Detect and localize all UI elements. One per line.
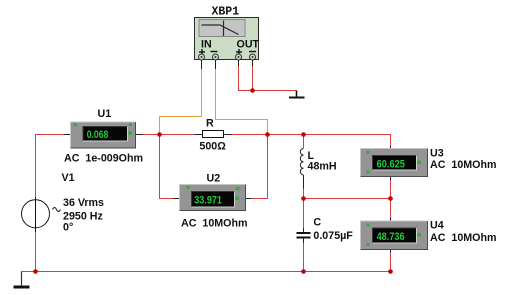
U3 display window [373,156,417,171]
XBP1 body [195,18,259,60]
junction bottom bus at U4 [388,269,393,274]
U4 terminal marks [367,224,422,247]
wire node B to U3 top corner (top bus right) [232,135,391,147]
svg-text:60.625: 60.625 [377,159,405,171]
junction node A (R left / U2 left / IN+) [157,132,162,137]
svg-text:500Ω: 500Ω [199,141,226,153]
wire U1 right pin stub [136,134,143,136]
XBP1 screen with response curve [199,20,245,37]
wire U4 bottom pin stub [390,249,392,253]
wire XBP1 OUT+ terminal stub [238,60,240,66]
svg-text:AC 10MOhm: AC 10MOhm [181,218,248,230]
wire node C-top to inductor L top [303,135,305,149]
wire middle node to U4 top [390,199,392,219]
svg-text:U2: U2 [207,173,221,185]
wire XBP1 OUT- terminal stub [252,60,254,66]
wire U1 left pin stub [64,134,71,136]
AC source V1 [22,172,105,234]
voltmeter U3 [361,148,497,177]
XBP1 terminals IN+ IN- OUT+ OUT- [199,54,256,60]
svg-text:AC 1e-009Ohm: AC 1e-009Ohm [64,153,143,165]
wire U4 top pin stub [390,218,392,222]
U1 display window [83,127,128,142]
wire U2 left pin stub [174,198,181,200]
svg-text:AC 10MOhm: AC 10MOhm [430,232,497,244]
wire middle node to capacitor C top [303,199,305,229]
svg-text:0°: 0° [63,222,73,234]
junction middle node at U3/U4 [388,196,393,201]
wire bottom bus [22,271,391,273]
svg-text:V1: V1 [62,172,75,184]
U4 display window [373,228,417,243]
wire V1 top to U1 left (top bus left) [36,135,65,198]
junction node B (R right / U2 right / IN-) [265,132,270,137]
resistor R [199,118,226,153]
U2 body [180,185,246,211]
junction OUT- to ground wire [250,88,255,93]
svg-text:48.736: 48.736 [377,231,405,243]
U4 body [361,221,428,250]
svg-text:U1: U1 [98,108,112,120]
svg-text:0.068: 0.068 [87,129,109,141]
wire XBP1 OUT+ to ground (red) [239,66,297,91]
wire XBP1 IN- to node B (orange) [216,69,268,135]
wire resistor R right lead [224,134,232,136]
wire XBP1 IN- terminal stub [215,60,217,69]
U2 display window [192,192,235,208]
wire XBP1 IN+ terminal stub [201,60,203,69]
wire U3 bottom pin stub [390,177,392,181]
wire middle bus L/C to U3/U4 [304,198,391,200]
instrument XBP1 Bode plotter [195,6,260,61]
svg-text:AC 10MOhm: AC 10MOhm [430,159,497,171]
svg-text:XBP1: XBP1 [212,6,240,19]
U3 terminal marks [367,151,422,174]
junction node L top (top bus / U3) [301,132,306,137]
svg-text:OUT: OUT [237,39,260,51]
wire V1 bottom to bottom bus [35,232,37,272]
junction middle node at L/C [301,196,306,201]
svg-text:C: C [313,217,321,229]
U1 terminal marks [74,123,133,135]
wire resistor R left lead [195,134,203,136]
wire XBP1 OUT- down (red) [252,66,254,91]
wire U1 to node A [143,134,195,136]
U2 terminal marks [187,186,240,200]
wire U2 right up to node B [251,135,268,199]
wire XBP1 IN+ to node A (orange) [160,69,202,135]
svg-text:48mH: 48mH [308,161,337,173]
wire U3 top pin stub [390,146,392,149]
svg-text:IN: IN [201,39,212,51]
voltmeter U4 [361,220,497,250]
wire capacitor C bottom to bottom bus [303,243,305,272]
junction bottom bus at V1 [33,269,38,274]
capacitor C [297,217,354,244]
ammeter U1 [64,108,143,165]
svg-text:0.075µF: 0.075µF [313,230,353,242]
inductor L [300,149,336,189]
junction bottom bus at C [301,269,306,274]
ground (top right, XBP1 OUT) [289,91,305,99]
wire U4 bottom to bottom bus [390,253,392,272]
U1 body [71,122,136,148]
wire inductor L bottom to middle node [303,189,305,199]
svg-text:U3: U3 [430,148,444,160]
U3 body [361,149,428,177]
svg-text:33.971: 33.971 [194,195,222,207]
wire U2 right pin stub [246,198,252,200]
svg-text:36 Vrms: 36 Vrms [63,197,104,209]
pin polarity marks + - + - [199,49,256,55]
svg-text:U4: U4 [430,220,444,232]
voltmeter U2 [180,173,248,230]
wire node A down to U2 left [160,135,174,199]
svg-text:R: R [206,118,214,130]
wire U3 bottom to middle node [390,180,392,199]
ground (bottom left, main) [14,272,30,289]
